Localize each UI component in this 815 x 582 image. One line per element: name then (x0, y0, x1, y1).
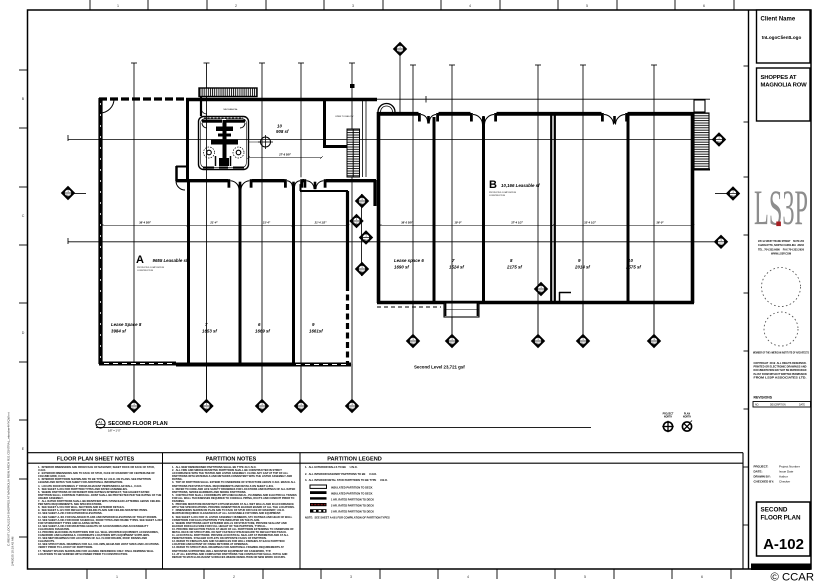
svg-text:36'-0": 36'-0" (656, 221, 664, 225)
svg-text:2: 2 (233, 575, 235, 579)
svg-text:27'-6 5/8": 27'-6 5/8" (278, 153, 292, 157)
svg-text:FLOOR PLAN SHEET NOTES: FLOOR PLAN SHEET NOTES (57, 457, 135, 463)
svg-text:PLAN: PLAN (684, 413, 691, 416)
svg-text:TEL. 704.333.6686 FAX 704.3: TEL. 704.333.6686 FAX 704.333.2926 (758, 248, 805, 251)
svg-text:E: E (22, 447, 25, 451)
svg-text:1 HR. RATED PARTITION TO DECK: 1 HR. RATED PARTITION TO DECK (331, 497, 374, 501)
svg-text:1: 1 (117, 4, 119, 8)
svg-text:A401: A401 (349, 407, 355, 410)
svg-text:PROTECTED COMPOSITION: PROTECTED COMPOSITION (137, 267, 165, 269)
svg-text:A401: A401 (259, 407, 265, 410)
svg-text:8: 8 (510, 258, 513, 263)
svg-text:2: 2 (235, 4, 237, 8)
svg-text:Author: Author (779, 475, 788, 479)
svg-text:205 1/2 WEST TRADE STREET S: 205 1/2 WEST TRADE STREET SUITE 200 (758, 240, 805, 243)
svg-text:PRINTED OR ELECTRONIC DRAWINGS: PRINTED OR ELECTRONIC DRAWINGS AND (754, 365, 807, 369)
svg-text:Client Name: Client Name (761, 17, 796, 23)
svg-text:DRAWN BY:: DRAWN BY: (754, 475, 771, 479)
svg-text:IN ANY FORM WITHOUT WRITTEN PE: IN ANY FORM WITHOUT WRITTEN PERMISSION (754, 372, 807, 376)
svg-text:B: B (489, 179, 497, 191)
svg-text:19'-0": 19'-0" (454, 221, 462, 225)
svg-text:D: D (22, 331, 25, 335)
svg-text:A: A (136, 254, 144, 266)
svg-text:DESCRIPTION: DESCRIPTION (770, 405, 786, 407)
svg-text:LS3P: LS3P (754, 179, 808, 235)
svg-text:A401: A401 (410, 342, 416, 345)
svg-text:908 sf: 908 sf (276, 129, 289, 134)
svg-text:DOCUMENTATION MAY NOT BE REPRO: DOCUMENTATION MAY NOT BE REPRODUCED (754, 368, 807, 372)
svg-text:Lease space 6: Lease space 6 (394, 258, 424, 263)
svg-text:A401: A401 (397, 50, 403, 53)
svg-text:5: 5 (586, 4, 588, 8)
svg-text:3: 3 (350, 575, 352, 579)
svg-text:1690 sf: 1690 sf (394, 265, 409, 270)
svg-text:PROJECT:: PROJECT: (754, 465, 769, 469)
svg-text:C:\REVIT LOCAL\2134 SHOPPES AT: C:\REVIT LOCAL\2134 SHOPPES AT MAGNOLIA … (7, 412, 11, 546)
svg-text:10: 10 (628, 258, 633, 263)
svg-text:2 HR. RATED PARTITION TO DECK: 2 HR. RATED PARTITION TO DECK (331, 503, 374, 507)
svg-text:A401: A401 (354, 222, 360, 225)
svg-text:Project Number: Project Number (779, 465, 800, 469)
svg-text:2575 sf: 2575 sf (625, 265, 641, 270)
svg-text:A401: A401 (65, 194, 71, 197)
svg-text:1/8" = 1'-0": 1/8" = 1'-0" (108, 428, 121, 432)
svg-text:COPYRIGHT 2019 ALL RIGHTS RE: COPYRIGHT 2019 ALL RIGHTS RESERVED. (754, 361, 807, 365)
svg-text:NOTE: SEE SHEET A-601 FOR COM: NOTE: SEE SHEET A-601 FOR COMPILATION OF… (305, 515, 390, 519)
svg-text:INSULATED PARTITION TO DECK: INSULATED PARTITION TO DECK (331, 485, 373, 489)
svg-text:6: 6 (701, 575, 703, 579)
svg-text:1669 sf: 1669 sf (255, 329, 270, 334)
svg-text:Checker: Checker (779, 480, 790, 484)
svg-text:INSULATED PARTITION TO DECK: INSULATED PARTITION TO DECK (331, 491, 373, 495)
svg-text:A1: A1 (98, 421, 102, 425)
svg-text:SECOND FLOOR PLAN: SECOND FLOOR PLAN (108, 421, 168, 427)
svg-text:NO.: NO. (755, 405, 759, 407)
svg-text:SHOPPES AT: SHOPPES AT (761, 75, 797, 81)
svg-text:A401: A401 (716, 141, 722, 144)
svg-text:B: B (22, 97, 25, 101)
svg-text:1653 sf: 1653 sf (202, 329, 217, 334)
svg-text:7: 7 (452, 258, 455, 263)
svg-text:A401: A401 (131, 407, 137, 410)
svg-text:DATE: DATE (799, 404, 805, 407)
svg-text:Lease Space 8: Lease Space 8 (111, 322, 142, 327)
svg-text:Second Level 23,721 gsf: Second Level 23,721 gsf (414, 365, 465, 370)
svg-text:7: 7 (205, 322, 208, 327)
svg-text:PROTECTED COMPOSITION: PROTECTED COMPOSITION (489, 192, 517, 194)
svg-text:2/4/2025 10:19:42 AM: 2/4/2025 10:19:42 AM (11, 536, 15, 566)
svg-text:© CCAR: © CCAR (771, 571, 814, 582)
svg-text:Issue Date: Issue Date (779, 470, 794, 474)
svg-text:4: 4 (469, 4, 471, 8)
svg-text:A401: A401 (718, 243, 724, 246)
svg-text:C: C (22, 214, 25, 218)
svg-text:36'-0 5/8": 36'-0 5/8" (401, 221, 414, 225)
svg-text:SECOND: SECOND (761, 507, 788, 514)
svg-text:2 HR. RATED PARTITION TO DECK: 2 HR. RATED PARTITION TO DECK (331, 509, 374, 513)
svg-text:2175 sf: 2175 sf (506, 265, 522, 270)
svg-text:PARTITION LEGEND: PARTITION LEGEND (327, 457, 382, 463)
svg-text:A401: A401 (363, 239, 369, 242)
svg-text:DATE:: DATE: (754, 470, 763, 474)
svg-text:1524 sf: 1524 sf (449, 265, 464, 270)
svg-text:NORTH: NORTH (683, 416, 692, 418)
svg-text:10: 10 (277, 124, 282, 129)
svg-text:4: 4 (467, 575, 469, 579)
svg-text:A401: A401 (449, 342, 455, 345)
svg-text:tnLogoClientLogo: tnLogoClientLogo (762, 35, 802, 40)
svg-text:REVISIONS: REVISIONS (754, 396, 773, 400)
svg-text:21'-4": 21'-4" (262, 221, 271, 225)
svg-text:6: 6 (258, 322, 261, 327)
svg-text:1: 1 (116, 575, 118, 579)
svg-text:A401: A401 (538, 290, 544, 293)
svg-text:PROJECT: PROJECT (663, 414, 674, 416)
svg-text:36'-4 5/8": 36'-4 5/8" (139, 221, 152, 225)
svg-text:A401: A401 (359, 202, 365, 205)
svg-text:A401: A401 (535, 342, 541, 345)
svg-text:9655 Leasable sf: 9655 Leasable sf (153, 258, 188, 263)
svg-text:A401: A401 (580, 342, 586, 345)
svg-text:MAGNOLIA ROW: MAGNOLIA ROW (761, 83, 808, 89)
svg-text:CHECKED BY:: CHECKED BY: (754, 480, 775, 484)
svg-text:OPEN TO BELOW: OPEN TO BELOW (335, 116, 354, 118)
svg-text:FROM LS3P ASSOCIATES LTD.: FROM LS3P ASSOCIATES LTD. (754, 375, 807, 379)
svg-text:WWW.LS3P.COM: WWW.LS3P.COM (771, 253, 791, 256)
svg-text:FLOOR PLAN: FLOOR PLAN (761, 515, 801, 522)
svg-text:3984 sf: 3984 sf (111, 329, 126, 334)
svg-text:CONSTRUCTION: CONSTRUCTION (489, 195, 506, 197)
svg-text:3: 3 (352, 4, 354, 8)
svg-text:CHARLOTTE, NORTH CAROLINA 282: CHARLOTTE, NORTH CAROLINA 28202 (758, 244, 805, 247)
svg-text:9: 9 (578, 258, 581, 263)
svg-text:A401: A401 (298, 407, 304, 410)
svg-text:1661sf: 1661sf (309, 329, 323, 334)
svg-text:6: 6 (703, 4, 705, 8)
svg-text:21'-4": 21'-4" (209, 221, 218, 225)
svg-text:MECHANICAL: MECHANICAL (224, 108, 239, 111)
svg-text:NORTH: NORTH (664, 416, 673, 418)
svg-text:9: 9 (312, 322, 315, 327)
svg-text:2014 sf: 2014 sf (574, 265, 590, 270)
svg-text:33'-4 1/2": 33'-4 1/2" (584, 221, 597, 225)
svg-text:CONSTRUCTION: CONSTRUCTION (137, 270, 154, 272)
svg-text:A-102: A-102 (763, 536, 804, 553)
svg-text:10,166 Leasable sf: 10,166 Leasable sf (501, 183, 540, 188)
svg-text:37'-4 1/2": 37'-4 1/2" (511, 221, 524, 225)
svg-text:A401: A401 (651, 342, 657, 345)
svg-text:A401: A401 (204, 407, 210, 410)
svg-text:MEMBER OF THE AMERICAN INSTITU: MEMBER OF THE AMERICAN INSTITUTE OF ARCH… (753, 351, 809, 355)
svg-text:PARTITION NOTES: PARTITION NOTES (206, 457, 257, 463)
svg-text:A401: A401 (359, 270, 365, 273)
svg-text:21'-4 1/2": 21'-4 1/2" (314, 221, 328, 225)
svg-text:A401: A401 (730, 195, 736, 198)
svg-text:5: 5 (584, 575, 586, 579)
